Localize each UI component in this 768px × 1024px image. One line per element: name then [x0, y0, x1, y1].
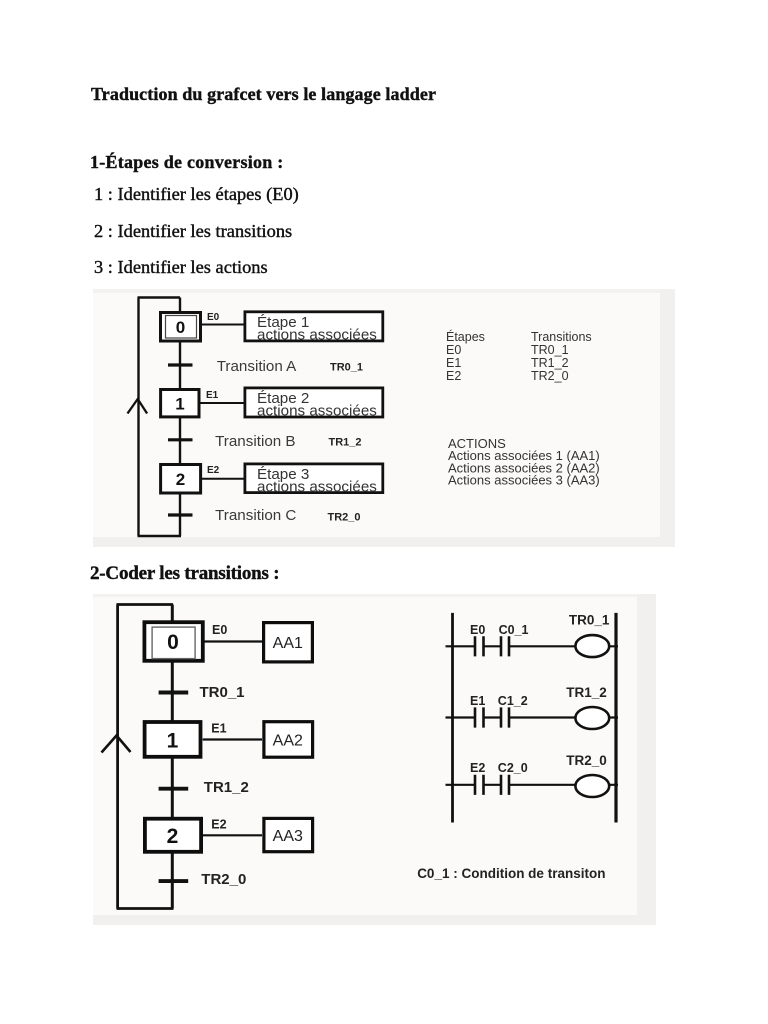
ladder: right rail: [614, 613, 617, 823]
transition tick TR0_1: [159, 691, 189, 695]
diagram 1: grafcet steps figure: [93, 289, 675, 547]
etape 2 action box: [245, 388, 383, 417]
wire: left feedback vertical: [116, 605, 119, 909]
etape 3 action box: [245, 464, 383, 493]
svg-text:E0: E0: [207, 312, 220, 323]
wire: top feedback horizontal: [117, 603, 174, 606]
svg-text:AA3: AA3: [273, 828, 303, 845]
svg-text:TR1_2: TR1_2: [204, 779, 249, 796]
step 2 box: [145, 819, 201, 852]
svg-text:E2: E2: [211, 817, 226, 831]
svg-text:E0: E0: [446, 343, 461, 357]
rung 3 wire: [446, 784, 619, 786]
svg-text:E0: E0: [470, 623, 485, 637]
svg-text:E2: E2: [470, 761, 485, 775]
svg-text:C1_2: C1_2: [498, 694, 528, 708]
svg-text:E1: E1: [206, 390, 219, 401]
svg-text:TR0_1: TR0_1: [569, 613, 610, 628]
svg-text:TR1_2: TR1_2: [566, 685, 607, 700]
step 0 box (double border): [144, 622, 202, 661]
svg-text:E1: E1: [211, 721, 226, 735]
coil TR0_1: [575, 635, 609, 657]
wire: left feedback vertical: [137, 298, 139, 537]
contact C2_0: [501, 775, 509, 795]
svg-text:0: 0: [167, 631, 179, 654]
step 1 box: [161, 390, 199, 417]
svg-text:AA1: AA1: [273, 635, 303, 652]
contact E0: [475, 636, 484, 656]
transition C tick: [168, 513, 193, 516]
svg-text:Transition C: Transition C: [215, 507, 296, 524]
wire: bottom feedback horizontal: [138, 535, 182, 538]
list item 1: [94, 184, 299, 205]
rung 2 wire: [446, 716, 619, 718]
step 1 box: [145, 722, 201, 757]
transition A tick: [168, 363, 193, 366]
wire: step0 to etape1 box: [202, 324, 244, 326]
svg-text:0: 0: [176, 318, 185, 337]
svg-text:E1: E1: [470, 694, 485, 708]
svg-text:Transition A: Transition A: [217, 358, 297, 375]
action box AA2: [264, 722, 313, 758]
svg-text:actions associées: actions associées: [257, 479, 377, 496]
svg-text:2: 2: [176, 470, 185, 489]
contact C1_2: [501, 707, 509, 727]
step 2 box: [161, 465, 201, 494]
contact E1: [475, 707, 484, 727]
svg-text:E2: E2: [446, 369, 461, 383]
wire: step1 to AA2: [203, 738, 262, 740]
ladder: left rail: [451, 613, 454, 823]
svg-text:E1: E1: [446, 356, 461, 370]
transition tick TR2_0: [159, 879, 189, 883]
svg-text:C0_1: C0_1: [499, 623, 529, 637]
transition B tick: [168, 438, 193, 441]
svg-text:1: 1: [167, 730, 179, 753]
svg-text:TR2_0: TR2_0: [328, 512, 361, 524]
svg-text:TR1_2: TR1_2: [329, 437, 362, 449]
svg-text:TR1_2: TR1_2: [531, 356, 569, 370]
svg-text:TR0_1: TR0_1: [330, 362, 363, 374]
coil TR1_2: [575, 707, 609, 729]
svg-text:TR0_1: TR0_1: [200, 684, 245, 701]
rung 1 wire: [446, 645, 619, 647]
wire: step2 to AA3: [203, 834, 262, 836]
wire: main vertical line: [179, 298, 181, 537]
contact C0_1: [501, 636, 509, 656]
list item 2: [94, 221, 292, 242]
svg-text:actions associées: actions associées: [257, 326, 377, 343]
contact E2: [475, 775, 484, 795]
svg-text:TR2_0: TR2_0: [531, 369, 569, 383]
wire: main vertical line: [171, 605, 174, 909]
heading 1: [90, 152, 284, 173]
svg-text:AA2: AA2: [273, 733, 303, 750]
svg-text:actions associées: actions associées: [257, 403, 377, 420]
transition tick TR1_2: [159, 787, 189, 791]
etape 1 action box: [245, 312, 383, 341]
coil TR2_0: [575, 775, 609, 797]
list item 3: [94, 257, 268, 278]
action box AA3: [264, 818, 313, 851]
action box AA1: [264, 623, 313, 662]
svg-text:Transitions: Transitions: [531, 330, 592, 344]
wire: step2 to etape3 box: [202, 478, 244, 480]
svg-text:C0_1 : Condition de transiton: C0_1 : Condition de transiton: [417, 866, 605, 881]
svg-text:TR2_0: TR2_0: [201, 871, 246, 888]
svg-text:C2_0: C2_0: [498, 761, 528, 775]
heading 2: [90, 563, 279, 585]
svg-text:E0: E0: [212, 623, 227, 637]
svg-text:Étapes: Étapes: [446, 329, 485, 344]
svg-text:1: 1: [175, 395, 184, 414]
wire: step1 to etape2 box: [201, 402, 245, 404]
svg-text:Actions associées 3 (AA3): Actions associées 3 (AA3): [448, 473, 600, 488]
diagram 2: grafcet + ladder figure: [93, 594, 656, 925]
svg-text:2: 2: [167, 825, 179, 848]
svg-text:E2: E2: [207, 465, 220, 476]
svg-text:Transition B: Transition B: [215, 433, 295, 450]
document title: [91, 84, 436, 105]
arrow up chevron: [102, 736, 131, 753]
step 0 box (double border): [161, 313, 201, 342]
wire: bottom feedback horizontal: [117, 907, 174, 910]
wire: step0 to AA1: [205, 640, 263, 642]
arrow up chevron: [128, 399, 148, 414]
svg-text:TR2_0: TR2_0: [566, 753, 607, 768]
svg-text:TR0_1: TR0_1: [531, 343, 569, 357]
wire: top feedback horizontal: [138, 296, 181, 299]
